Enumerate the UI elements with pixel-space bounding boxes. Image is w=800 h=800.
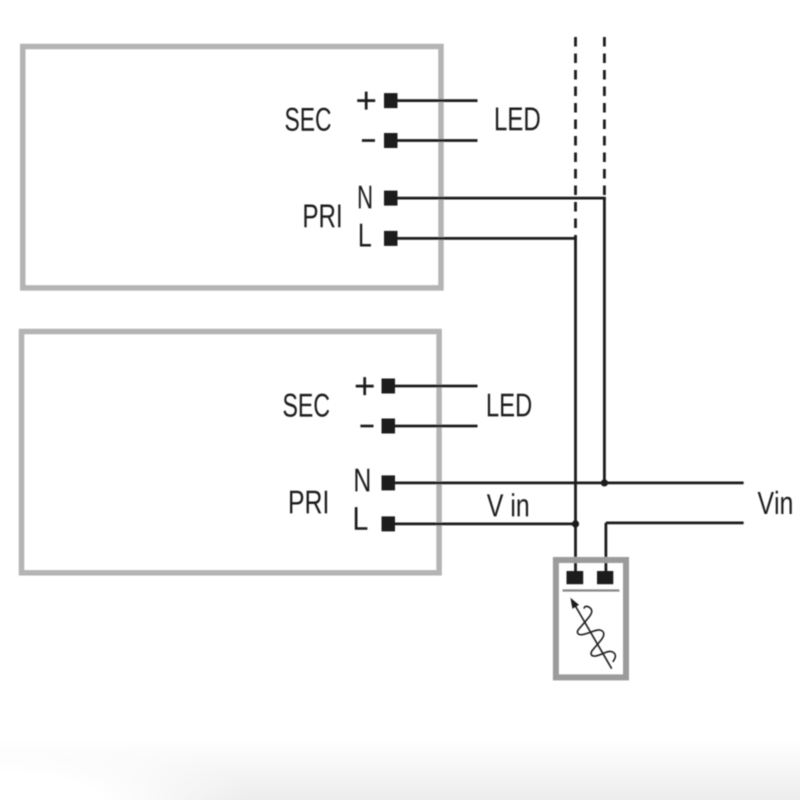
label PRI (box 1)	[304, 205, 340, 228]
label PRI (box 2)	[290, 491, 327, 514]
wire box2 + to LED	[395, 385, 478, 388]
pin label L (box 1)	[360, 224, 371, 247]
pin label L (box 2)	[355, 507, 368, 530]
label SEC (box 2)	[284, 394, 330, 417]
wire box2 L horizontal	[394, 523, 577, 526]
junction dot N bus	[601, 479, 608, 486]
wire Vin vertical into dimmer	[605, 523, 608, 572]
label SEC (box 1)	[286, 108, 331, 131]
dimmer separator line	[563, 589, 620, 591]
pin label N (box 1)	[359, 186, 371, 209]
bottom page shading gradient	[0, 740, 800, 800]
plus symbol (box 1 SEC +)	[357, 92, 375, 110]
dashed mains wire right (x=604.4)	[603, 37, 606, 198]
terminal square box2 +	[382, 379, 396, 394]
wire vertical left L bus	[574, 238, 577, 571]
dimmer box (enclosure)	[556, 560, 626, 677]
label Vin	[758, 491, 792, 514]
wire box1 L horizontal	[396, 237, 577, 240]
wire box1 + to LED	[397, 99, 478, 102]
dimmer arrow head	[570, 598, 579, 609]
terminal square box1 N	[384, 191, 398, 206]
label LED (box 2 output)	[488, 394, 531, 417]
plus symbol (box 2 SEC +)	[356, 377, 374, 395]
dimmer terminal right	[597, 571, 613, 584]
LED driver box 2 (enclosure)	[22, 332, 440, 573]
wire box2 - to LED	[395, 425, 478, 428]
dimmer wave symbol	[577, 606, 615, 662]
junction dot L bus	[572, 520, 579, 527]
wire box1 - to LED	[397, 139, 478, 142]
terminal square box2 -	[382, 419, 396, 434]
bottom-left white corner fade	[0, 740, 340, 800]
minus symbol (box 2 SEC -)	[360, 425, 373, 428]
wire box2 N horizontal to Vin	[395, 481, 744, 484]
wire box1 N horizontal	[397, 197, 606, 200]
wire Vin horizontal to dimmer	[606, 522, 744, 525]
terminal square box2 N	[382, 475, 396, 490]
dimmer arrow shaft	[575, 605, 612, 669]
wire vertical right N bus	[603, 198, 606, 483]
minus symbol (box 1 SEC -)	[362, 139, 375, 142]
LED driver box 1 (enclosure)	[23, 47, 441, 288]
pin label N (box 2)	[355, 469, 369, 492]
terminal square box2 L	[382, 516, 396, 531]
terminal square box1 L	[384, 231, 398, 246]
terminal square box1 +	[384, 93, 398, 108]
label V in	[487, 493, 528, 516]
dashed mains wire left (x=575.5)	[574, 37, 577, 238]
terminal square box1 -	[384, 133, 398, 148]
dimmer terminal left	[567, 571, 584, 584]
label LED (box 1 output)	[496, 108, 540, 131]
